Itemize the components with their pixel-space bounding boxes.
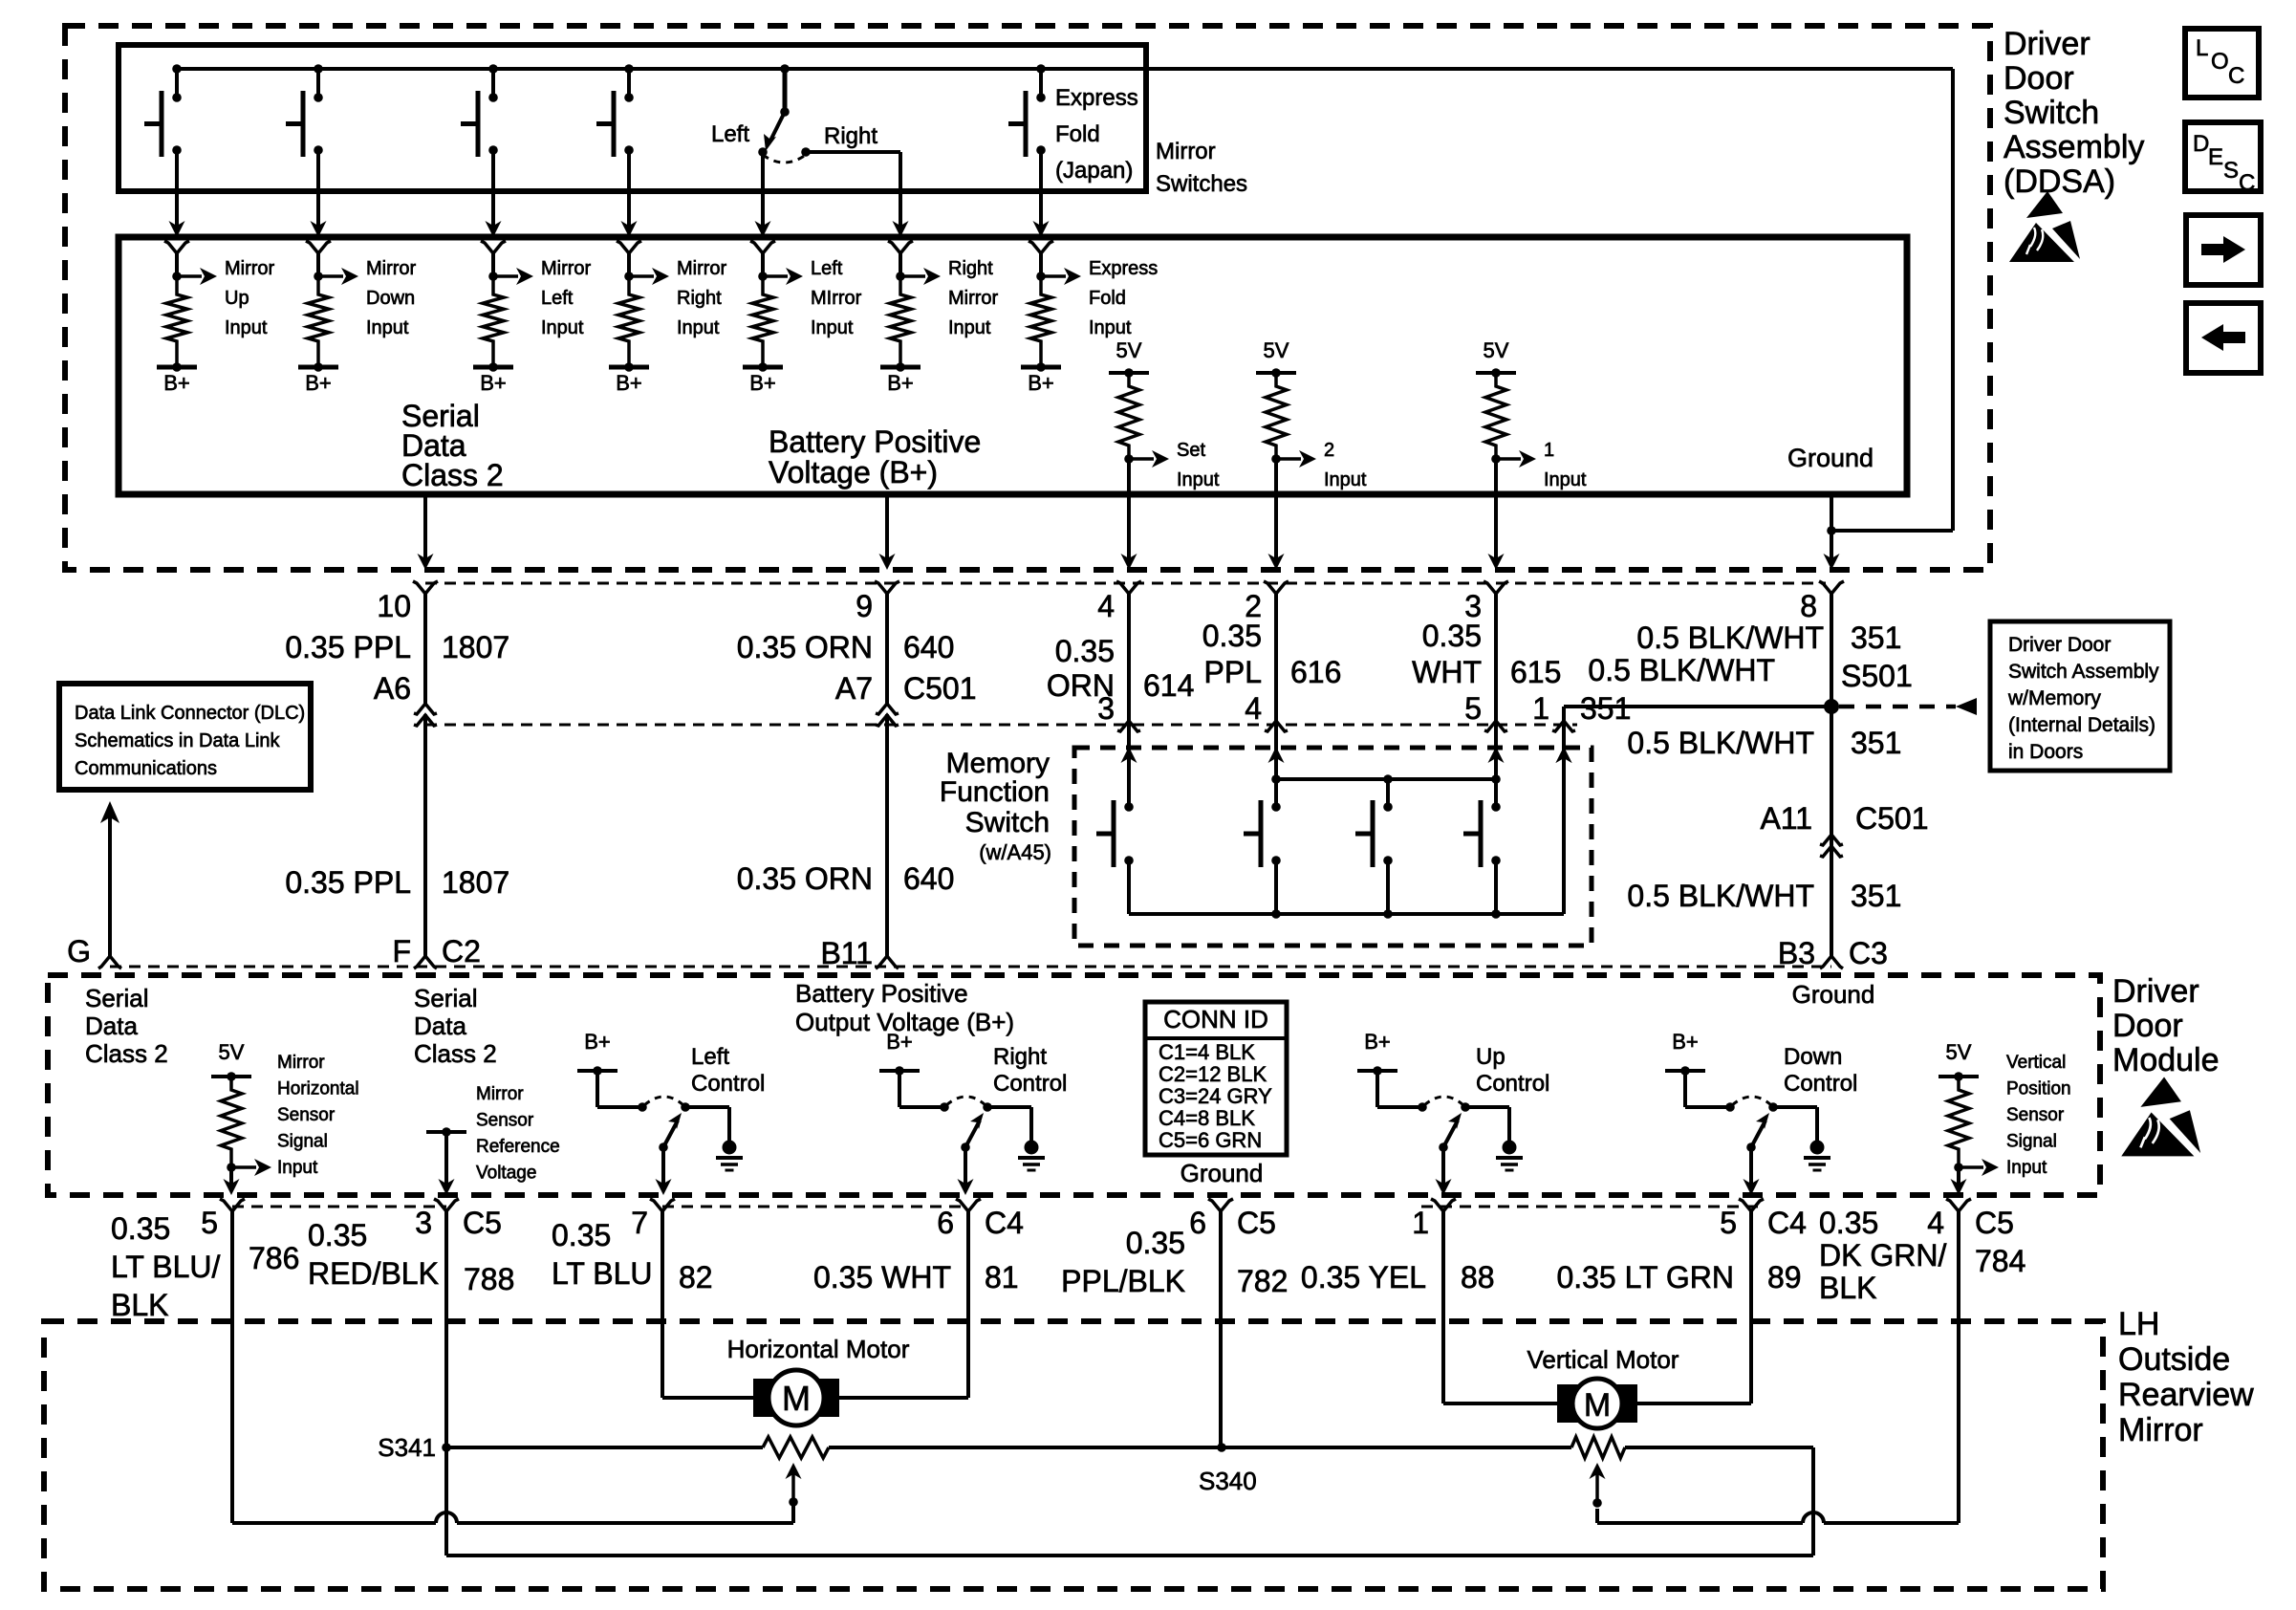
svg-text:Battery Positive: Battery Positive bbox=[769, 424, 981, 459]
svg-text:Battery Positive: Battery Positive bbox=[795, 979, 968, 1008]
svg-text:Control: Control bbox=[993, 1071, 1067, 1097]
svg-text:C4: C4 bbox=[1767, 1206, 1807, 1240]
svg-text:Switch: Switch bbox=[965, 807, 1050, 838]
svg-text:Ground: Ground bbox=[1787, 444, 1874, 472]
svg-text:Driver: Driver bbox=[2004, 26, 2090, 62]
svg-text:PPL: PPL bbox=[1204, 655, 1262, 689]
svg-text:Right: Right bbox=[677, 288, 722, 309]
svg-text:1: 1 bbox=[1412, 1206, 1429, 1240]
svg-text:B+: B+ bbox=[616, 371, 642, 395]
svg-text:Driver: Driver bbox=[2112, 973, 2199, 1010]
svg-text:1: 1 bbox=[1544, 440, 1554, 461]
svg-text:Left: Left bbox=[541, 288, 574, 309]
svg-text:C4=8 BLK: C4=8 BLK bbox=[1159, 1106, 1255, 1130]
svg-text:Module: Module bbox=[2112, 1042, 2220, 1078]
svg-text:B+: B+ bbox=[163, 371, 190, 395]
svg-text:L: L bbox=[2196, 35, 2208, 61]
svg-text:0.35 WHT: 0.35 WHT bbox=[813, 1260, 951, 1295]
svg-text:Sensor: Sensor bbox=[2006, 1105, 2065, 1125]
svg-text:Input: Input bbox=[541, 317, 584, 338]
svg-text:Assembly: Assembly bbox=[2004, 129, 2144, 165]
svg-text:Down: Down bbox=[1784, 1044, 1842, 1070]
svg-text:Data: Data bbox=[414, 1012, 466, 1040]
svg-text:BLK: BLK bbox=[111, 1288, 168, 1322]
svg-text:Function: Function bbox=[940, 776, 1050, 808]
svg-text:S341: S341 bbox=[378, 1433, 436, 1462]
svg-text:Input: Input bbox=[366, 317, 409, 338]
svg-text:89: 89 bbox=[1767, 1260, 1802, 1295]
svg-text:0.35: 0.35 bbox=[552, 1218, 611, 1252]
svg-text:Rearview: Rearview bbox=[2118, 1377, 2254, 1413]
svg-text:0.5 BLK/WHT: 0.5 BLK/WHT bbox=[1627, 726, 1814, 760]
svg-text:Switches: Switches bbox=[1156, 171, 1247, 197]
svg-text:Driver Door: Driver Door bbox=[2008, 634, 2111, 656]
svg-text:351: 351 bbox=[1851, 879, 1901, 913]
svg-text:BLK: BLK bbox=[1819, 1271, 1876, 1305]
svg-text:Mirror: Mirror bbox=[541, 258, 592, 279]
svg-text:Mirror: Mirror bbox=[948, 288, 999, 309]
svg-text:(Japan): (Japan) bbox=[1055, 158, 1133, 184]
svg-text:82: 82 bbox=[679, 1260, 713, 1295]
svg-text:Door: Door bbox=[2112, 1008, 2183, 1044]
svg-text:Fold: Fold bbox=[1089, 288, 1126, 309]
svg-text:1807: 1807 bbox=[442, 865, 509, 900]
svg-text:Serial: Serial bbox=[414, 984, 477, 1012]
svg-text:Control: Control bbox=[691, 1071, 765, 1097]
svg-text:Data: Data bbox=[85, 1012, 138, 1040]
svg-text:Position: Position bbox=[2006, 1079, 2071, 1099]
svg-text:Input: Input bbox=[277, 1158, 318, 1178]
svg-text:Memory: Memory bbox=[946, 748, 1050, 779]
svg-text:615: 615 bbox=[1510, 655, 1561, 689]
svg-text:Switch Assembly: Switch Assembly bbox=[2008, 661, 2159, 683]
svg-text:B+: B+ bbox=[1028, 371, 1054, 395]
svg-text:DK GRN/: DK GRN/ bbox=[1819, 1238, 1946, 1273]
svg-text:B+: B+ bbox=[749, 371, 776, 395]
svg-text:A11: A11 bbox=[1760, 801, 1812, 836]
svg-text:3: 3 bbox=[1097, 691, 1115, 726]
svg-text:Control: Control bbox=[1476, 1071, 1549, 1097]
svg-text:Left: Left bbox=[691, 1044, 729, 1070]
svg-text:0.5 BLK/WHT: 0.5 BLK/WHT bbox=[1627, 879, 1814, 913]
svg-text:B+: B+ bbox=[886, 1030, 913, 1054]
svg-text:Express: Express bbox=[1055, 85, 1138, 111]
svg-text:RED/BLK: RED/BLK bbox=[308, 1256, 439, 1291]
svg-text:B+: B+ bbox=[584, 1030, 611, 1054]
svg-text:Mirror: Mirror bbox=[677, 258, 727, 279]
svg-text:7: 7 bbox=[631, 1206, 648, 1240]
svg-text:Schematics in Data Link: Schematics in Data Link bbox=[75, 730, 281, 751]
svg-text:5: 5 bbox=[201, 1206, 218, 1240]
svg-text:0.35 PPL: 0.35 PPL bbox=[285, 630, 411, 664]
svg-text:Serial: Serial bbox=[85, 984, 148, 1012]
svg-text:2: 2 bbox=[1324, 440, 1334, 461]
svg-text:Sensor: Sensor bbox=[277, 1105, 336, 1125]
svg-text:3: 3 bbox=[415, 1206, 432, 1240]
svg-text:Horizontal Motor: Horizontal Motor bbox=[727, 1335, 910, 1363]
svg-text:4: 4 bbox=[1097, 589, 1115, 623]
svg-text:M: M bbox=[782, 1379, 811, 1418]
svg-text:Down: Down bbox=[366, 288, 415, 309]
svg-text:Mirror: Mirror bbox=[225, 258, 275, 279]
svg-text:Vertical Motor: Vertical Motor bbox=[1527, 1345, 1679, 1374]
svg-text:Input: Input bbox=[811, 317, 854, 338]
svg-text:Input: Input bbox=[677, 317, 720, 338]
svg-text:5: 5 bbox=[1464, 691, 1482, 726]
svg-text:B+: B+ bbox=[305, 371, 332, 395]
svg-text:Data Link Connector (DLC): Data Link Connector (DLC) bbox=[75, 703, 305, 724]
svg-text:MIrror: MIrror bbox=[811, 288, 862, 309]
svg-text:Input: Input bbox=[1324, 469, 1367, 490]
svg-text:614: 614 bbox=[1143, 668, 1194, 703]
svg-text:Fold: Fold bbox=[1055, 121, 1100, 147]
svg-text:0.35: 0.35 bbox=[1202, 619, 1262, 653]
svg-text:C5=6 GRN: C5=6 GRN bbox=[1159, 1128, 1262, 1152]
svg-text:S340: S340 bbox=[1199, 1467, 1257, 1495]
svg-text:782: 782 bbox=[1237, 1264, 1288, 1298]
svg-text:81: 81 bbox=[985, 1260, 1019, 1295]
svg-text:CONN ID: CONN ID bbox=[1163, 1005, 1268, 1033]
svg-text:B+: B+ bbox=[1364, 1030, 1391, 1054]
svg-text:5V: 5V bbox=[1264, 338, 1289, 362]
svg-text:6: 6 bbox=[1189, 1206, 1206, 1240]
svg-text:F: F bbox=[392, 934, 411, 968]
svg-text:C5: C5 bbox=[463, 1206, 502, 1240]
svg-text:Mirror: Mirror bbox=[277, 1053, 325, 1073]
svg-text:6: 6 bbox=[937, 1206, 954, 1240]
svg-text:G: G bbox=[67, 934, 91, 968]
svg-text:C3: C3 bbox=[1849, 936, 1888, 970]
svg-text:Express: Express bbox=[1089, 258, 1158, 279]
svg-text:LT BLU: LT BLU bbox=[552, 1256, 653, 1291]
svg-text:S: S bbox=[2223, 158, 2239, 184]
svg-text:Set: Set bbox=[1177, 440, 1205, 461]
svg-text:Outside: Outside bbox=[2118, 1341, 2230, 1378]
svg-text:351: 351 bbox=[1851, 620, 1901, 655]
svg-text:B+: B+ bbox=[1672, 1030, 1699, 1054]
svg-text:Control: Control bbox=[1784, 1071, 1857, 1097]
svg-text:Input: Input bbox=[1089, 317, 1132, 338]
svg-text:0.35 PPL: 0.35 PPL bbox=[285, 865, 411, 900]
svg-text:Door: Door bbox=[2004, 60, 2074, 97]
svg-text:D: D bbox=[2193, 131, 2209, 157]
svg-text:Input: Input bbox=[948, 317, 991, 338]
svg-text:351: 351 bbox=[1851, 726, 1901, 760]
svg-text:0.5 BLK/WHT: 0.5 BLK/WHT bbox=[1636, 620, 1824, 655]
svg-text:Class 2: Class 2 bbox=[85, 1039, 168, 1068]
svg-text:B+: B+ bbox=[480, 371, 507, 395]
svg-text:Left: Left bbox=[711, 121, 749, 147]
svg-text:Horizontal: Horizontal bbox=[277, 1079, 359, 1099]
svg-text:S501: S501 bbox=[1841, 659, 1913, 693]
svg-text:(DDSA): (DDSA) bbox=[2004, 163, 2115, 200]
svg-text:C5: C5 bbox=[1237, 1206, 1276, 1240]
svg-text:O: O bbox=[2211, 49, 2229, 75]
svg-text:w/Memory: w/Memory bbox=[2007, 687, 2101, 709]
svg-text:0.35: 0.35 bbox=[308, 1218, 367, 1252]
svg-text:Right: Right bbox=[948, 258, 993, 279]
svg-text:Input: Input bbox=[2006, 1158, 2047, 1178]
svg-text:A7: A7 bbox=[835, 671, 873, 706]
svg-text:0.35: 0.35 bbox=[1126, 1226, 1185, 1260]
svg-text:Ground: Ground bbox=[1792, 980, 1875, 1009]
svg-text:Up: Up bbox=[225, 288, 249, 309]
svg-text:788: 788 bbox=[464, 1262, 514, 1296]
svg-text:Right: Right bbox=[993, 1044, 1047, 1070]
svg-text:C: C bbox=[2228, 63, 2244, 89]
svg-text:Left: Left bbox=[811, 258, 843, 279]
svg-text:Mirror: Mirror bbox=[1156, 139, 1216, 164]
svg-text:Class 2: Class 2 bbox=[414, 1039, 497, 1068]
svg-text:0.35 YEL: 0.35 YEL bbox=[1301, 1260, 1426, 1295]
svg-text:0.35 ORN: 0.35 ORN bbox=[737, 630, 873, 664]
svg-text:C1=4 BLK: C1=4 BLK bbox=[1159, 1040, 1255, 1064]
svg-text:C2=12 BLK: C2=12 BLK bbox=[1159, 1062, 1267, 1086]
svg-text:9: 9 bbox=[856, 589, 873, 623]
svg-text:640: 640 bbox=[903, 861, 954, 896]
svg-text:0.35: 0.35 bbox=[1055, 634, 1115, 668]
svg-text:Input: Input bbox=[225, 317, 268, 338]
svg-text:Sensor: Sensor bbox=[476, 1111, 534, 1131]
svg-text:Up: Up bbox=[1476, 1044, 1505, 1070]
svg-text:C: C bbox=[2239, 170, 2255, 196]
svg-text:5V: 5V bbox=[1484, 338, 1509, 362]
svg-text:Mirror: Mirror bbox=[476, 1084, 524, 1104]
svg-text:Mirror: Mirror bbox=[2118, 1412, 2203, 1448]
svg-text:Switch: Switch bbox=[2004, 95, 2099, 131]
svg-text:5: 5 bbox=[1720, 1206, 1737, 1240]
svg-text:Signal: Signal bbox=[2006, 1132, 2057, 1152]
svg-text:0.35 LT GRN: 0.35 LT GRN bbox=[1556, 1260, 1734, 1295]
svg-text:Input: Input bbox=[1177, 469, 1220, 490]
svg-text:C4: C4 bbox=[985, 1206, 1024, 1240]
svg-text:10: 10 bbox=[377, 589, 411, 623]
svg-text:0.35: 0.35 bbox=[111, 1211, 170, 1246]
svg-text:in Doors: in Doors bbox=[2008, 741, 2083, 763]
svg-text:Signal: Signal bbox=[277, 1132, 328, 1152]
svg-text:1: 1 bbox=[1532, 691, 1549, 726]
svg-text:Right: Right bbox=[824, 123, 877, 149]
svg-text:5V: 5V bbox=[1116, 338, 1142, 362]
svg-text:Communications: Communications bbox=[75, 758, 217, 779]
svg-text:786: 786 bbox=[249, 1241, 299, 1275]
svg-text:WHT: WHT bbox=[1412, 655, 1482, 689]
svg-text:Mirror: Mirror bbox=[366, 258, 417, 279]
svg-text:8: 8 bbox=[1800, 589, 1817, 623]
svg-text:Voltage: Voltage bbox=[476, 1164, 536, 1184]
svg-text:Vertical: Vertical bbox=[2006, 1053, 2066, 1073]
svg-text:PPL/BLK: PPL/BLK bbox=[1061, 1264, 1185, 1298]
svg-text:A6: A6 bbox=[374, 671, 411, 706]
svg-text:5V: 5V bbox=[219, 1040, 245, 1064]
svg-text:0.35: 0.35 bbox=[1819, 1206, 1878, 1240]
svg-text:Voltage (B+): Voltage (B+) bbox=[769, 455, 938, 490]
svg-text:Ground: Ground bbox=[1180, 1159, 1264, 1187]
svg-text:0.35 ORN: 0.35 ORN bbox=[737, 861, 873, 896]
svg-text:LT BLU/: LT BLU/ bbox=[111, 1250, 221, 1284]
svg-text:Reference: Reference bbox=[476, 1137, 560, 1157]
svg-text:(Internal Details): (Internal Details) bbox=[2008, 714, 2155, 736]
svg-text:LH: LH bbox=[2118, 1306, 2159, 1342]
svg-text:E: E bbox=[2208, 144, 2223, 170]
svg-text:616: 616 bbox=[1290, 655, 1341, 689]
svg-text:5V: 5V bbox=[1946, 1040, 1972, 1064]
svg-text:B+: B+ bbox=[887, 371, 914, 395]
svg-text:C501: C501 bbox=[1855, 801, 1929, 836]
svg-text:4: 4 bbox=[1245, 691, 1262, 726]
svg-text:(w/A45): (w/A45) bbox=[979, 840, 1051, 864]
svg-text:4: 4 bbox=[1927, 1206, 1944, 1240]
svg-text:640: 640 bbox=[903, 630, 954, 664]
svg-text:C3=24 GRY: C3=24 GRY bbox=[1159, 1084, 1272, 1108]
svg-text:C5: C5 bbox=[1975, 1206, 2014, 1240]
svg-text:0.5 BLK/WHT: 0.5 BLK/WHT bbox=[1588, 653, 1775, 687]
svg-text:1807: 1807 bbox=[442, 630, 509, 664]
svg-text:M: M bbox=[1584, 1387, 1611, 1424]
svg-text:C501: C501 bbox=[903, 671, 977, 706]
svg-text:Input: Input bbox=[1544, 469, 1587, 490]
svg-text:784: 784 bbox=[1975, 1244, 2025, 1278]
svg-text:88: 88 bbox=[1461, 1260, 1495, 1295]
svg-text:0.35: 0.35 bbox=[1422, 619, 1482, 653]
svg-text:Class 2: Class 2 bbox=[401, 458, 504, 492]
svg-text:C2: C2 bbox=[442, 934, 481, 968]
